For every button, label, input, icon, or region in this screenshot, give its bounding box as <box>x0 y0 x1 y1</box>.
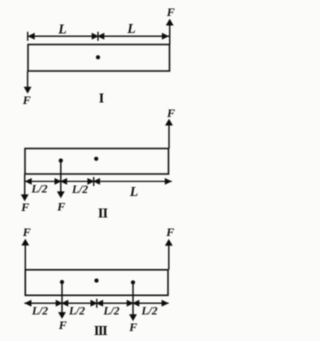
force F up shaft (top right, II) <box>168 125 170 149</box>
force F up arrowhead (top right, II) <box>165 119 173 126</box>
tick left end I <box>27 32 29 41</box>
arrowhead div1-right II (points left) <box>60 178 67 185</box>
force F down arrowhead (mid, II) <box>57 191 65 198</box>
arrowhead div1-left II (points right) <box>55 178 62 185</box>
svg-text:F: F <box>56 200 65 214</box>
force F up shaft (top left, III) <box>24 245 26 270</box>
svg-text:II: II <box>98 207 108 222</box>
arrowhead right end II (points right) <box>165 178 172 185</box>
svg-text:F: F <box>20 200 29 214</box>
beam I rectangle <box>28 45 170 72</box>
arrowhead left end III (points left) <box>24 300 31 307</box>
svg-text:F: F <box>166 5 175 19</box>
arrowhead div3-right III (points left) <box>132 300 139 307</box>
center-of-mass dot beam II <box>94 157 98 161</box>
center-of-mass dot beam III <box>94 279 98 283</box>
force F down arrowhead (left, III) <box>58 312 66 319</box>
arrowhead div1-left III (points right) <box>56 300 63 307</box>
svg-text:F: F <box>165 225 174 239</box>
force application dot beam II <box>59 159 63 163</box>
beam III rectangle <box>25 270 168 296</box>
arrowhead center-right I (points left) <box>97 33 104 40</box>
svg-text:L/2: L/2 <box>103 306 120 318</box>
svg-text:L/2: L/2 <box>71 184 88 196</box>
dimension line I left segment <box>28 35 97 37</box>
arrowhead left end I (points left) <box>28 33 35 40</box>
dimension line II <box>25 180 172 182</box>
force application dot right beam III <box>131 280 135 284</box>
svg-text:I: I <box>99 92 104 107</box>
force F down arrowhead (right, III) <box>129 314 137 321</box>
force F down shaft (left end, II) <box>24 174 26 196</box>
force F down arrowhead (bottom left, I) <box>24 87 32 94</box>
force F up arrowhead (top left, III) <box>21 239 29 246</box>
svg-text:F: F <box>128 320 137 334</box>
svg-text:L/2: L/2 <box>68 306 85 318</box>
arrowhead div1-right III (points left) <box>61 300 68 307</box>
arrowhead div2-right III (points left) <box>96 300 103 307</box>
tick at second division II <box>93 177 95 186</box>
svg-text:L/2: L/2 <box>31 306 48 318</box>
force F down shaft (left, III) <box>61 282 63 313</box>
force F down arrowhead (left end, II) <box>21 194 29 201</box>
arrowhead center-left I (points right) <box>92 33 99 40</box>
svg-text:L/2: L/2 <box>31 184 48 196</box>
svg-text:L: L <box>126 21 135 36</box>
tick center I <box>97 32 99 41</box>
force F up shaft (top right, III) <box>168 245 170 270</box>
svg-text:F: F <box>22 225 31 239</box>
svg-text:L: L <box>129 184 138 199</box>
arrowhead div2-left II (points right) <box>87 178 94 185</box>
dimension line III <box>24 302 168 304</box>
force F down shaft (mid, II) <box>60 161 62 193</box>
force F down shaft (bottom left, I) <box>27 71 29 88</box>
tick at center division III <box>96 299 98 308</box>
svg-text:F: F <box>166 106 175 120</box>
force F up arrowhead (top right, I) <box>166 19 174 26</box>
arrowhead left end II (points left) <box>25 178 32 185</box>
force F up shaft (top right, I) <box>169 25 171 45</box>
force F up arrowhead (top right, III) <box>165 239 173 246</box>
dimension line I right segment <box>99 35 169 37</box>
beam II rectangle <box>25 149 169 175</box>
force F down shaft (right, III) <box>132 282 134 315</box>
svg-text:III: III <box>94 324 107 339</box>
arrowhead right end I (points right) <box>162 33 169 40</box>
arrowhead div3-left III (points right) <box>127 300 134 307</box>
arrowhead right end III (points right) <box>162 300 169 307</box>
svg-text:F: F <box>58 318 67 332</box>
arrowhead div2-right II (points left) <box>93 178 100 185</box>
center-of-mass dot beam I <box>96 55 100 59</box>
force application dot left beam III <box>60 280 64 284</box>
svg-text:L/2: L/2 <box>141 306 158 318</box>
arrowhead div2-left III (points right) <box>91 300 98 307</box>
svg-text:L: L <box>57 22 66 37</box>
svg-text:F: F <box>22 93 31 107</box>
